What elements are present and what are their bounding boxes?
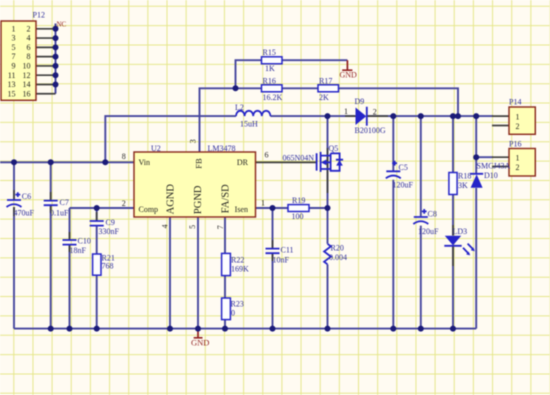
svg-text:2K: 2K <box>319 93 329 102</box>
svg-text:16: 16 <box>23 89 31 98</box>
svg-text:GND: GND <box>191 338 209 348</box>
svg-text:C6: C6 <box>22 192 31 201</box>
svg-text:U2: U2 <box>151 144 161 153</box>
svg-text:10nF: 10nF <box>273 256 290 265</box>
svg-text:330nF: 330nF <box>99 227 120 236</box>
svg-text:PGND: PGND <box>193 185 204 214</box>
svg-text:P12: P12 <box>33 11 45 20</box>
svg-text:120uF: 120uF <box>393 180 414 189</box>
svg-text:470uF: 470uF <box>14 208 35 217</box>
svg-text:C10: C10 <box>78 236 91 245</box>
svg-text:C5: C5 <box>399 163 408 172</box>
svg-text:LM3478: LM3478 <box>208 144 236 153</box>
svg-text:SMCJ43A: SMCJ43A <box>477 161 511 170</box>
svg-text:D10: D10 <box>484 171 498 180</box>
svg-text:GND: GND <box>340 70 358 79</box>
svg-text:FA/SD: FA/SD <box>220 184 231 213</box>
svg-text:1: 1 <box>261 198 265 207</box>
svg-text:FB: FB <box>193 158 203 169</box>
svg-text:1: 1 <box>516 153 520 162</box>
svg-text:R22: R22 <box>231 256 244 265</box>
svg-text:Vin: Vin <box>139 158 151 167</box>
svg-text:P16: P16 <box>509 139 521 148</box>
svg-text:R16: R16 <box>263 77 276 86</box>
svg-text:D9: D9 <box>355 97 365 106</box>
svg-text:169K: 169K <box>231 265 249 274</box>
svg-text:R15: R15 <box>263 48 276 57</box>
svg-text:B20100G: B20100G <box>355 126 386 135</box>
svg-text:13: 13 <box>8 80 16 89</box>
svg-text:7: 7 <box>12 52 16 61</box>
svg-text:2: 2 <box>516 122 520 131</box>
svg-text:AGND: AGND <box>165 184 176 215</box>
svg-text:3: 3 <box>188 139 197 143</box>
svg-text:10: 10 <box>23 62 31 71</box>
svg-text:C7: C7 <box>60 198 69 207</box>
svg-text:15uH: 15uH <box>240 120 258 129</box>
svg-text:3K: 3K <box>458 181 468 190</box>
svg-text:NC: NC <box>57 20 67 28</box>
svg-text:8: 8 <box>27 52 31 61</box>
svg-text:Isen: Isen <box>235 205 248 214</box>
svg-text:R17: R17 <box>319 77 332 86</box>
svg-text:0: 0 <box>231 309 235 318</box>
svg-text:R23: R23 <box>231 300 244 309</box>
svg-text:12: 12 <box>23 71 31 80</box>
svg-text:16.2K: 16.2K <box>263 93 283 102</box>
svg-text:11: 11 <box>8 71 16 80</box>
svg-text:DR: DR <box>237 158 249 167</box>
svg-text:2: 2 <box>373 107 377 116</box>
svg-text:4: 4 <box>161 224 170 228</box>
svg-text:L2: L2 <box>235 103 244 112</box>
svg-text:14: 14 <box>23 80 31 89</box>
svg-text:15: 15 <box>8 89 16 98</box>
svg-text:Q5: Q5 <box>329 144 339 153</box>
svg-text:0.1uF: 0.1uF <box>50 208 69 217</box>
svg-text:Comp: Comp <box>139 205 159 214</box>
svg-text:C9: C9 <box>106 218 115 227</box>
svg-text:P14: P14 <box>509 98 521 107</box>
svg-text:6: 6 <box>265 151 269 160</box>
svg-text:6: 6 <box>27 43 31 52</box>
svg-text:R18: R18 <box>458 171 471 180</box>
svg-text:2: 2 <box>122 199 126 208</box>
svg-text:0.004: 0.004 <box>329 253 347 262</box>
svg-text:5: 5 <box>188 225 197 229</box>
svg-text:9: 9 <box>12 62 16 71</box>
svg-text:2: 2 <box>27 24 31 33</box>
svg-text:1: 1 <box>12 24 16 33</box>
svg-text:R20: R20 <box>331 243 344 252</box>
svg-text:R19: R19 <box>292 196 305 205</box>
svg-text:065N04N: 065N04N <box>283 154 315 163</box>
svg-text:1: 1 <box>516 112 520 121</box>
svg-text:LD3: LD3 <box>453 227 468 236</box>
svg-text:4: 4 <box>27 34 31 43</box>
svg-text:7: 7 <box>216 225 225 229</box>
svg-text:1K: 1K <box>265 64 275 73</box>
svg-text:C8: C8 <box>428 210 437 219</box>
svg-text:18nF: 18nF <box>70 246 87 255</box>
svg-text:C11: C11 <box>281 246 294 255</box>
svg-text:1: 1 <box>344 107 348 116</box>
svg-text:120uF: 120uF <box>418 227 439 236</box>
svg-text:5: 5 <box>12 43 16 52</box>
svg-text:2: 2 <box>516 163 520 172</box>
svg-text:100: 100 <box>292 212 304 221</box>
svg-text:768: 768 <box>102 261 114 270</box>
svg-text:8: 8 <box>122 152 126 161</box>
svg-text:3: 3 <box>12 34 16 43</box>
